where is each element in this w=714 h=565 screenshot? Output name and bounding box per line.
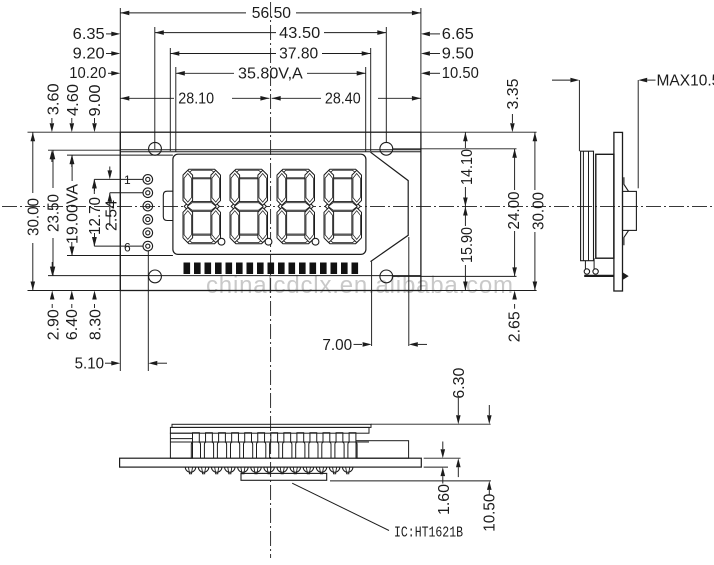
svg-text:28.10: 28.10: [178, 91, 214, 108]
svg-text:23.50: 23.50: [46, 194, 63, 232]
svg-text:37.80: 37.80: [279, 46, 318, 63]
mounting hole top-right: [380, 142, 393, 155]
dim 43.50: [155, 25, 386, 42]
side view pin row line: [584, 275, 614, 277]
svg-text:6.65: 6.65: [442, 26, 474, 43]
dim 56.50: [120, 5, 421, 22]
ext line glass bottom left: [67, 255, 173, 257]
svg-text:12.70: 12.70: [87, 197, 104, 235]
bottom view zebra legs: [191, 442, 357, 458]
dim 2.90: [45, 262, 62, 340]
side view connector bump: [623, 191, 637, 230]
right chamfer tab: [371, 152, 409, 261]
ext line module left: [119, 8, 121, 371]
svg-text:IC:HT1621B: IC:HT1621B: [394, 525, 463, 542]
ext line tab edge: [408, 237, 410, 346]
svg-text:30.00: 30.00: [530, 192, 547, 230]
ext line module bottom left: [28, 290, 121, 292]
ext line hole line right bottom: [393, 275, 517, 277]
dim 30.00 left: [25, 132, 42, 290]
zebra connector strip: [184, 263, 359, 275]
side view bottom pin tip: [623, 272, 629, 280]
dim 5.10: [75, 356, 167, 373]
pin2 leader line: [110, 192, 143, 194]
label 6.35: [73, 26, 121, 43]
ext line IC bottom: [330, 480, 491, 482]
dim 19.00VA: [65, 155, 82, 255]
svg-text:10.50: 10.50: [482, 493, 499, 531]
IC leader line: [292, 483, 389, 530]
7-segment digit 2: [230, 169, 268, 244]
svg-text:10.20: 10.20: [69, 65, 106, 82]
label 9.20: [73, 46, 121, 63]
svg-text:30.00: 30.00: [25, 198, 42, 236]
svg-text:8.30: 8.30: [87, 309, 104, 340]
svg-text:6: 6: [124, 241, 131, 255]
vertical centerline: [270, 2, 272, 558]
ext line bezel bottom left: [48, 275, 120, 277]
ext line 37.80 right: [370, 48, 372, 151]
7-segment digit 4: [324, 169, 362, 244]
svg-text:6.35: 6.35: [73, 26, 105, 43]
mounting hole top-left: [149, 142, 162, 155]
svg-text:3.35: 3.35: [505, 79, 522, 110]
svg-text:43.50: 43.50: [279, 25, 320, 42]
pin 6 label: [124, 241, 131, 255]
dim 9.00: [87, 84, 104, 191]
svg-text:5.10: 5.10: [75, 356, 105, 373]
LCD glass: [173, 154, 366, 254]
ext line module right: [420, 8, 422, 132]
svg-text:MAX10.50: MAX10.50: [657, 73, 714, 90]
bottom view solder pins: [185, 467, 353, 474]
side view pcb: [614, 132, 623, 291]
dim 2.54: [103, 167, 120, 232]
svg-text:19.00VA: 19.00VA: [65, 183, 82, 244]
svg-text:2.65: 2.65: [507, 311, 524, 342]
label 10.20: [69, 65, 120, 82]
front view module outline: [120, 132, 421, 290]
IC label: [394, 525, 463, 542]
dim 6.30: [451, 367, 468, 477]
side view polarizer stack: [581, 151, 594, 261]
svg-text:14.10: 14.10: [459, 149, 476, 185]
svg-text:4.60: 4.60: [65, 84, 82, 116]
dim 30.00 right: [530, 132, 547, 290]
dim 28.10: [120, 91, 269, 108]
ext line 35.80 right: [365, 67, 367, 152]
dim 4.60: [65, 84, 82, 167]
svg-text:10.50: 10.50: [442, 65, 479, 82]
ext line module top left: [28, 131, 121, 133]
label 10.50 top: [421, 65, 479, 82]
pin 1 label: [124, 173, 131, 187]
pin 5 pad: [143, 228, 153, 238]
dim 7.00: [322, 337, 427, 354]
bottom view left end block: [170, 433, 192, 458]
side view bump chamfer top: [624, 177, 629, 191]
ext line glass top left: [67, 154, 173, 156]
dim 3.35: [505, 79, 522, 133]
ext line module top right: [421, 131, 537, 133]
7-segment digit 1: [183, 169, 221, 244]
ext line pcb bottom right: [424, 466, 448, 468]
dim MAX10.50: [552, 73, 714, 90]
bottom view right block: [356, 441, 409, 459]
ext line side right max: [637, 80, 639, 188]
bottom view zebra teeth: [193, 433, 356, 442]
watermark chinalcdclx.en.alibaba.com: [206, 272, 513, 299]
svg-text:28.40: 28.40: [325, 91, 361, 108]
pin6 extension line down: [147, 251, 149, 371]
svg-text:9.00: 9.00: [87, 84, 104, 116]
svg-text:1: 1: [124, 173, 131, 187]
svg-text:3.60: 3.60: [46, 83, 63, 115]
dim 3.60: [46, 83, 63, 162]
svg-text:2.54: 2.54: [103, 200, 120, 231]
label 6.65: [421, 26, 474, 43]
svg-text:6.40: 6.40: [64, 309, 81, 340]
dim 35.80 V,A: [176, 66, 366, 83]
ext line 37.80 left: [169, 48, 171, 151]
ext line hole right: [385, 27, 387, 143]
horizontal centerline: [2, 205, 712, 207]
side view bump chamfer bottom: [624, 230, 629, 245]
pin 6 pad: [143, 241, 153, 251]
pin1 leader line: [94, 178, 143, 180]
svg-text:2.90: 2.90: [45, 309, 62, 340]
7-segment digit 3: [277, 169, 315, 244]
svg-text:24.00: 24.00: [506, 191, 523, 229]
pin 3 pad: [143, 201, 153, 211]
ext line 35.80 left: [175, 67, 177, 152]
svg-text:9.50: 9.50: [442, 46, 474, 63]
decimal point 1: [218, 238, 225, 245]
decimal point 3: [312, 238, 319, 245]
dim 2.65: [507, 291, 524, 343]
ext line bezel top left: [48, 149, 120, 151]
mounting hole bottom-left: [149, 270, 162, 283]
svg-text:56.50: 56.50: [252, 5, 292, 22]
dim 1.60: [436, 442, 453, 516]
side view glass: [596, 154, 614, 258]
bottom view glass second bar: [170, 427, 369, 433]
decimal point 2: [265, 238, 272, 245]
side view pin hooks: [584, 258, 598, 274]
svg-text:35.80V,A: 35.80V,A: [238, 66, 303, 83]
pin 1 pad: [143, 175, 153, 185]
bottom view teeth row line: [170, 441, 369, 443]
dim 24.00: [506, 149, 523, 277]
bezel bottom line: [120, 275, 421, 277]
svg-text:6.30: 6.30: [451, 367, 468, 398]
pin 2 pad: [143, 188, 153, 198]
ext line pcb top right: [424, 457, 461, 459]
dim 12.70: [87, 179, 104, 246]
label 9.50: [421, 46, 474, 63]
bottom view glass top bar: [172, 424, 371, 427]
ext line tab corner: [371, 262, 373, 346]
svg-text:9.20: 9.20: [73, 46, 105, 63]
bezel top double line: [120, 150, 421, 152]
dim 14.10: [459, 132, 476, 206]
ext line hole line right top: [393, 148, 517, 150]
bottom view IC body: [241, 473, 327, 480]
pin6 leader line: [94, 245, 143, 247]
dim 8.30: [87, 233, 104, 340]
dim 10.50 bottom: [482, 405, 499, 532]
glass left tab: [163, 191, 173, 220]
bottom view pcb: [120, 458, 422, 467]
dim 15.90: [459, 206, 476, 290]
mounting hole bottom-right: [380, 270, 393, 283]
dim 37.80: [170, 46, 370, 63]
dim 23.50: [46, 150, 63, 275]
dim 28.40: [272, 91, 421, 108]
ext line glass top bottomview: [371, 423, 491, 425]
dim 6.40: [64, 242, 81, 340]
pin 4 pad: [143, 215, 153, 225]
svg-text:15.90: 15.90: [459, 227, 476, 263]
ext line module bottom right: [421, 290, 537, 292]
svg-text:7.00: 7.00: [322, 337, 352, 354]
svg-text:1.60: 1.60: [436, 484, 453, 515]
ext line hole left: [154, 27, 156, 149]
ext line side left face: [578, 80, 580, 151]
